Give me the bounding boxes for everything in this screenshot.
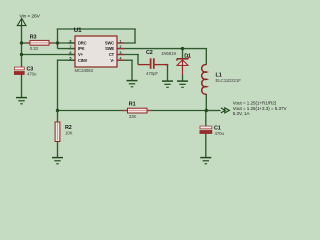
svg-text:SWC: SWC <box>105 41 114 46</box>
svg-text:C2: C2 <box>146 50 153 56</box>
svg-text:470pF: 470pF <box>146 71 158 76</box>
svg-text:33K: 33K <box>129 114 137 119</box>
svg-text:470u: 470u <box>27 71 37 76</box>
svg-text:5.3V, 1A: 5.3V, 1A <box>233 111 250 116</box>
svg-text:1: 1 <box>120 39 122 43</box>
svg-text:1N5819: 1N5819 <box>161 51 176 56</box>
svg-text:4: 4 <box>120 57 122 61</box>
svg-text:DRC: DRC <box>78 41 87 46</box>
svg-text:CT: CT <box>109 52 115 57</box>
svg-text:D1: D1 <box>184 53 191 59</box>
svg-text:V+: V+ <box>78 52 84 57</box>
svg-text:R3: R3 <box>30 34 37 40</box>
svg-text:Vin < 26V: Vin < 26V <box>19 13 40 19</box>
svg-text:8: 8 <box>70 39 72 43</box>
svg-text:MC34063: MC34063 <box>75 68 94 73</box>
svg-text:IPK: IPK <box>78 46 85 51</box>
svg-text:5: 5 <box>70 57 72 61</box>
svg-text:470u: 470u <box>215 131 225 136</box>
svg-text:SWE: SWE <box>105 46 114 51</box>
svg-text:7: 7 <box>70 45 72 49</box>
svg-text:R1: R1 <box>129 101 136 107</box>
svg-text:U1: U1 <box>74 27 82 34</box>
svg-text:CINV: CINV <box>78 58 88 63</box>
svg-text:2: 2 <box>120 45 122 49</box>
svg-text:ELC11D221F: ELC11D221F <box>216 78 242 83</box>
svg-text:Vout = 1.25(1+R1/R2): Vout = 1.25(1+R1/R2) <box>233 101 277 106</box>
svg-text:10K: 10K <box>65 131 73 136</box>
svg-text:0.33: 0.33 <box>30 46 39 51</box>
svg-text:3: 3 <box>120 51 122 55</box>
svg-text:6: 6 <box>70 51 72 55</box>
